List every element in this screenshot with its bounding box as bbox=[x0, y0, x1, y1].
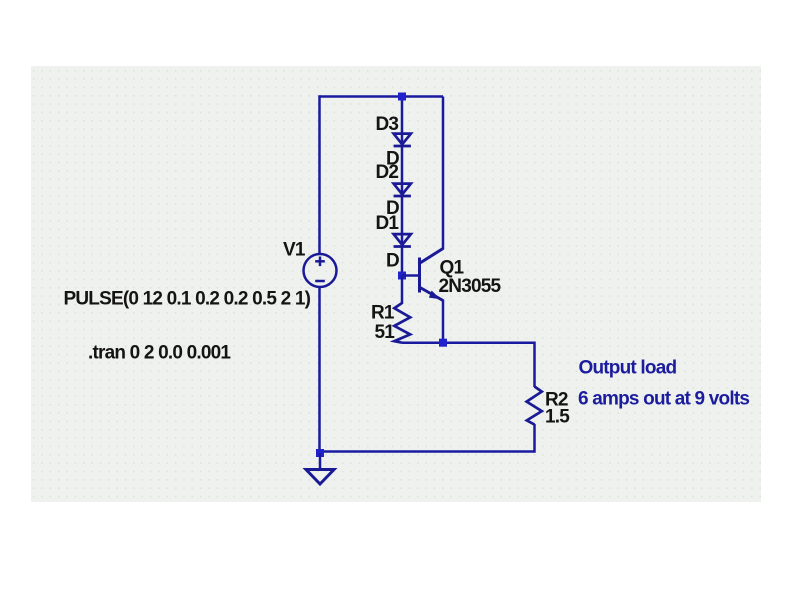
junction: emitter node bbox=[439, 339, 447, 347]
svg-text:D3: D3 bbox=[376, 114, 399, 135]
svg-text:D: D bbox=[386, 251, 399, 272]
wire: mid horizontal (R1 bottom / emitter to R2 top) bbox=[402, 341, 535, 344]
svg-text:V1: V1 bbox=[283, 240, 306, 261]
resistor R2 bbox=[527, 387, 542, 425]
svg-text:51: 51 bbox=[375, 322, 396, 343]
wire: left vertical lower (V1 minus to ground node) bbox=[318, 287, 321, 454]
wire: base stub bbox=[402, 274, 420, 277]
svg-text:.tran 0 2 0.0 0.001: .tran 0 2 0.0 0.001 bbox=[88, 343, 231, 364]
junction: ground node bbox=[316, 449, 324, 457]
junction: base node bbox=[398, 272, 406, 280]
wire: R2 top pin bbox=[533, 342, 536, 388]
junction: top node bbox=[398, 93, 406, 101]
wire: bottom horizontal (R2 to ground node) bbox=[320, 450, 535, 453]
resistor R1 bbox=[394, 303, 410, 343]
wire: R2 bottom pin bbox=[533, 424, 536, 453]
diode D2 bbox=[394, 184, 411, 196]
wire: left vertical upper (top rail to V1 plus) bbox=[318, 95, 321, 254]
svg-text:1.5: 1.5 bbox=[545, 407, 570, 428]
wire: diode chain vertical bbox=[401, 97, 404, 276]
svg-text:Output load: Output load bbox=[579, 358, 677, 379]
transistor Q1 (NPN 2N3055) bbox=[420, 249, 444, 301]
ground symbol bbox=[306, 470, 334, 485]
svg-text:2N3055: 2N3055 bbox=[439, 276, 502, 297]
wire: ground stem bbox=[319, 453, 322, 469]
diode D1 bbox=[394, 234, 411, 246]
wire: collector vertical bbox=[442, 97, 445, 250]
svg-text:R1: R1 bbox=[371, 303, 395, 324]
wire: top horizontal (V1+ to collector) bbox=[320, 95, 444, 98]
diode D3 bbox=[394, 134, 411, 146]
wire: emitter vertical bbox=[442, 300, 445, 344]
svg-text:D2: D2 bbox=[376, 162, 399, 183]
svg-text:PULSE(0 12 0.1 0.2 0.2 0.5 2 1: PULSE(0 12 0.1 0.2 0.2 0.5 2 1) bbox=[64, 289, 311, 310]
wire: R1 top pin bbox=[401, 276, 404, 305]
svg-text:6 amps out at 9 volts: 6 amps out at 9 volts bbox=[578, 389, 749, 410]
voltage source V1 bbox=[304, 254, 337, 287]
svg-text:D1: D1 bbox=[376, 213, 400, 234]
